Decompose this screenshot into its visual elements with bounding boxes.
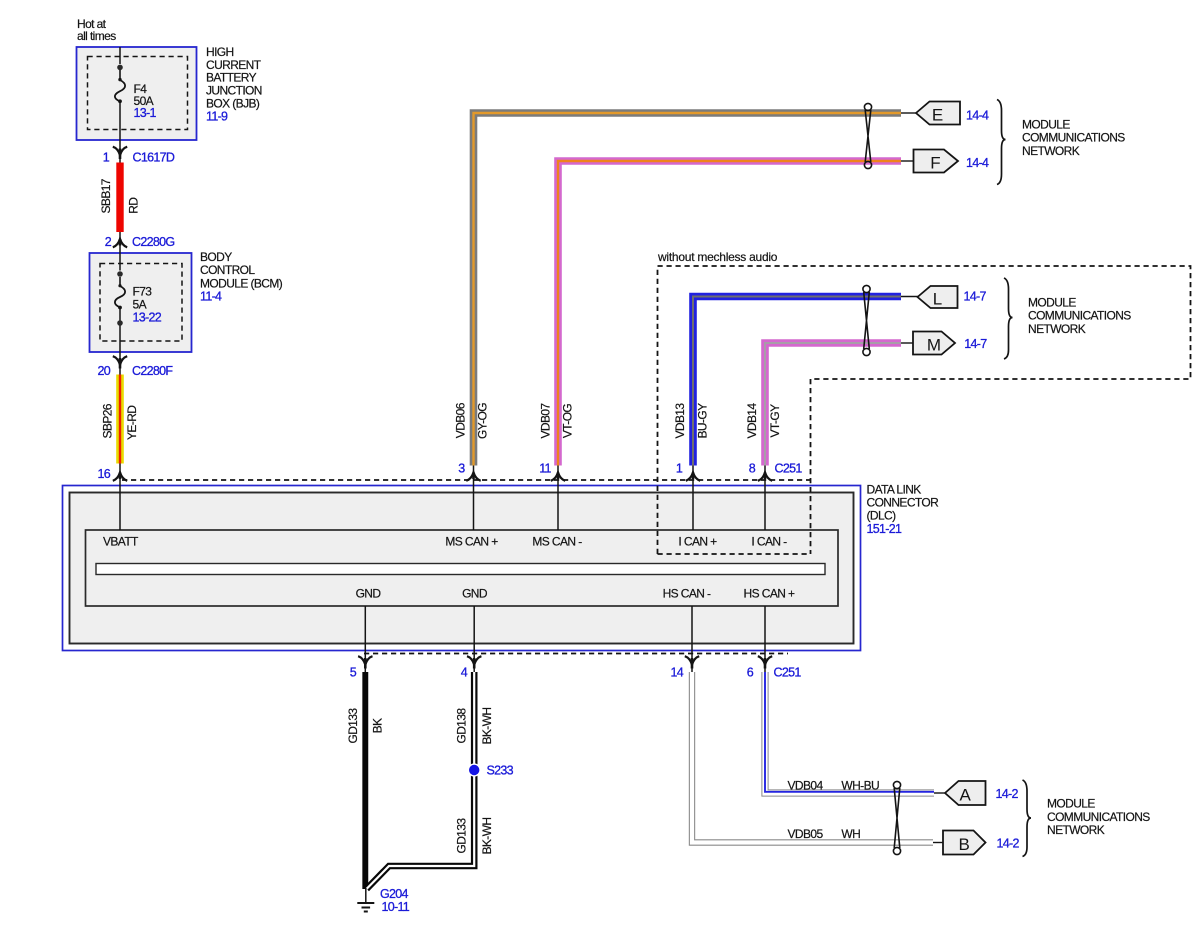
svg-text:C1617D: C1617D <box>133 150 175 164</box>
BCM inner dashed outline <box>100 264 182 342</box>
wire SBB17 RD (red) <box>116 163 123 233</box>
svg-text:(DLC): (DLC) <box>867 509 897 523</box>
svg-text:14-7: 14-7 <box>964 290 987 304</box>
svg-text:BODY: BODY <box>200 250 232 264</box>
wire VDB05 WH (white) <box>692 672 933 843</box>
connector F <box>914 150 959 173</box>
svg-text:L: L <box>933 290 942 309</box>
ground G204 symbol <box>357 903 374 912</box>
svg-text:VDB05: VDB05 <box>788 827 824 841</box>
svg-text:B: B <box>959 835 970 854</box>
svg-text:C251: C251 <box>775 461 803 475</box>
svg-text:F73: F73 <box>133 284 153 298</box>
fuse box: HIGH CURRENT BATTERY JUNCTION BOX (BJB) <box>77 47 197 140</box>
svg-text:G204: G204 <box>380 887 409 901</box>
svg-text:I CAN -: I CAN - <box>751 535 787 549</box>
svg-text:HS CAN -: HS CAN - <box>663 587 711 601</box>
svg-text:5A: 5A <box>133 297 147 311</box>
svg-text:BU-GY: BU-GY <box>696 403 710 439</box>
svg-text:MODULE: MODULE <box>1028 295 1076 309</box>
brace L/M <box>1004 278 1013 359</box>
svg-text:MS CAN -: MS CAN - <box>532 535 582 549</box>
wire lead pin16 into DLC <box>119 464 121 531</box>
svg-text:GY-OG: GY-OG <box>476 403 490 439</box>
dashed connector interface line below DLC <box>364 653 788 655</box>
svg-text:8: 8 <box>749 461 756 475</box>
svg-text:A: A <box>960 785 972 804</box>
pin 2 arrow C2280G <box>113 239 127 247</box>
svg-text:VDB14: VDB14 <box>745 403 759 439</box>
svg-text:GND: GND <box>462 587 488 601</box>
wire VDB14 VT-GY (I CAN -) <box>765 343 901 466</box>
svg-text:14: 14 <box>670 666 683 680</box>
svg-text:COMMUNICATIONS: COMMUNICATIONS <box>1022 131 1125 145</box>
DATA LINK CONNECTOR (DLC) outer blue box <box>63 486 861 651</box>
svg-text:13-1: 13-1 <box>134 106 157 120</box>
svg-text:all times: all times <box>77 29 116 43</box>
svg-text:VDB07: VDB07 <box>539 403 553 439</box>
svg-text:DATA LINK: DATA LINK <box>867 482 922 496</box>
svg-text:BK-WH: BK-WH <box>480 818 494 855</box>
svg-text:F: F <box>930 154 940 173</box>
svg-text:JUNCTION: JUNCTION <box>206 84 262 98</box>
svg-text:NETWORK: NETWORK <box>1047 823 1105 837</box>
connector M <box>913 332 955 355</box>
wire lead pin5 inside DLC <box>364 606 366 672</box>
twisted pair A/B <box>893 781 900 854</box>
svg-text:SBB17: SBB17 <box>99 178 113 213</box>
wire SBP26 YE-RD (yellow/red) <box>116 375 124 464</box>
svg-text:11: 11 <box>539 461 551 475</box>
pin 8 arrow C251 top <box>758 472 772 480</box>
svg-text:5: 5 <box>350 666 357 680</box>
svg-text:RD: RD <box>127 197 141 214</box>
svg-text:I CAN +: I CAN + <box>678 535 717 549</box>
svg-text:WH: WH <box>841 827 860 841</box>
svg-text:E: E <box>932 106 943 125</box>
BJB inner dashed outline <box>88 57 188 130</box>
svg-text:GD138: GD138 <box>455 708 469 744</box>
wire GD133 BK (black) to ground <box>362 672 368 889</box>
wire VDB06 GY-OG (MS CAN +) <box>474 113 902 466</box>
splice S233 <box>468 763 481 776</box>
svg-text:BOX (BJB): BOX (BJB) <box>206 97 260 111</box>
connector L <box>918 286 958 308</box>
connector B <box>943 831 986 855</box>
DLC inner pin-label box <box>86 530 839 606</box>
wire lead pin4 inside DLC <box>473 606 475 672</box>
svg-text:BATTERY: BATTERY <box>206 71 257 85</box>
svg-text:COMMUNICATIONS: COMMUNICATIONS <box>1047 810 1150 824</box>
svg-text:M: M <box>927 336 941 355</box>
svg-text:BK: BK <box>371 718 385 733</box>
svg-text:C2280F: C2280F <box>132 364 173 378</box>
svg-text:C2280G: C2280G <box>132 235 174 249</box>
svg-text:6: 6 <box>747 666 754 680</box>
svg-text:MODULE: MODULE <box>1047 797 1095 811</box>
fuse F73 symbol <box>117 271 123 277</box>
pin 6 arrow C251 bottom <box>758 656 772 668</box>
svg-text:VDB04: VDB04 <box>788 778 824 792</box>
wire GD138/GD133 BK-WH (black-white) <box>367 672 475 889</box>
svg-text:10-11: 10-11 <box>382 900 410 914</box>
svg-text:without mechless audio: without mechless audio <box>657 250 778 264</box>
svg-text:11-9: 11-9 <box>206 109 228 123</box>
svg-text:1: 1 <box>676 461 683 475</box>
svg-text:151-21: 151-21 <box>867 522 902 536</box>
pin 1 arrow C1617D <box>113 147 127 159</box>
module box: BODY CONTROL MODULE (BCM) <box>90 253 192 352</box>
dashed region: without mechless audio <box>658 266 1191 554</box>
pin 16 arrow <box>113 472 127 480</box>
pin 11 arrow <box>551 472 565 480</box>
svg-text:16: 16 <box>97 467 110 481</box>
pin 1 arrow C251 top <box>686 472 700 480</box>
connector A <box>945 781 986 805</box>
wire VDB04 WH-BU (white-blue) <box>765 672 934 793</box>
wire VDB07 VT-OG (MS CAN -) <box>558 161 901 466</box>
pin 20 arrow C2280F <box>113 356 127 368</box>
svg-text:13-22: 13-22 <box>133 310 162 324</box>
twisted pair L/M <box>863 285 870 355</box>
svg-text:1: 1 <box>103 150 110 164</box>
brace A/B <box>1023 780 1032 857</box>
svg-text:14-4: 14-4 <box>966 108 989 122</box>
svg-text:BK-WH: BK-WH <box>480 708 494 745</box>
svg-text:4: 4 <box>461 666 468 680</box>
svg-text:MS CAN +: MS CAN + <box>445 535 498 549</box>
svg-text:VDB06: VDB06 <box>453 402 467 438</box>
svg-text:14-4: 14-4 <box>966 156 989 170</box>
svg-text:VBATT: VBATT <box>103 535 139 549</box>
svg-text:VDB13: VDB13 <box>673 403 687 439</box>
twisted pair E/F <box>864 103 871 168</box>
fuse F4 symbol <box>117 65 123 71</box>
dashed connector interface line above DLC <box>122 479 810 481</box>
wire VDB13 BU-GY (I CAN +) <box>693 297 901 466</box>
svg-text:GD133: GD133 <box>346 708 360 744</box>
svg-text:11-4: 11-4 <box>200 290 222 304</box>
wire lead to ground symbol <box>365 888 367 902</box>
svg-text:CONTROL: CONTROL <box>200 263 255 277</box>
wire lead red to BCM fuse <box>119 232 121 271</box>
svg-text:14-2: 14-2 <box>997 837 1020 851</box>
svg-text:20: 20 <box>97 364 110 378</box>
svg-text:VT-OG: VT-OG <box>561 404 575 439</box>
svg-text:COMMUNICATIONS: COMMUNICATIONS <box>1028 309 1131 323</box>
svg-text:C251: C251 <box>774 666 802 680</box>
svg-text:HIGH: HIGH <box>206 45 234 59</box>
wire lead pin14 inside DLC <box>691 606 693 672</box>
dashed segment closing I CAN area inside DLC <box>658 553 811 555</box>
pin 3 arrow <box>466 472 480 480</box>
DLC connector bar <box>96 564 825 575</box>
svg-text:GD133: GD133 <box>455 818 469 854</box>
svg-text:GND: GND <box>356 587 382 601</box>
svg-text:NETWORK: NETWORK <box>1022 144 1080 158</box>
pin 5 arrow <box>358 656 372 668</box>
svg-text:S233: S233 <box>487 763 514 777</box>
svg-text:2: 2 <box>105 235 112 249</box>
svg-text:SBP26: SBP26 <box>100 403 114 438</box>
wire lead pin6 inside DLC <box>764 606 766 672</box>
svg-text:VT-GY: VT-GY <box>768 404 782 438</box>
svg-text:14-2: 14-2 <box>996 787 1019 801</box>
svg-text:MODULE (BCM): MODULE (BCM) <box>200 276 283 290</box>
brace E/F <box>997 100 1006 185</box>
svg-text:HS CAN +: HS CAN + <box>744 587 795 601</box>
svg-text:NETWORK: NETWORK <box>1028 322 1086 336</box>
pin 4 arrow <box>467 656 481 668</box>
svg-text:CURRENT: CURRENT <box>206 58 262 72</box>
svg-text:WH-BU: WH-BU <box>841 778 879 792</box>
connector E <box>916 102 960 125</box>
svg-text:14-7: 14-7 <box>964 337 987 351</box>
svg-text:CONNECTOR: CONNECTOR <box>867 496 940 510</box>
svg-text:MODULE: MODULE <box>1022 117 1070 131</box>
svg-text:YE-RD: YE-RD <box>125 405 139 440</box>
DLC gray body box <box>70 493 854 644</box>
svg-text:3: 3 <box>458 461 465 475</box>
wire: vertical lead from BJB top through fuse to red segment <box>119 47 121 64</box>
pin 14 arrow <box>685 656 699 668</box>
